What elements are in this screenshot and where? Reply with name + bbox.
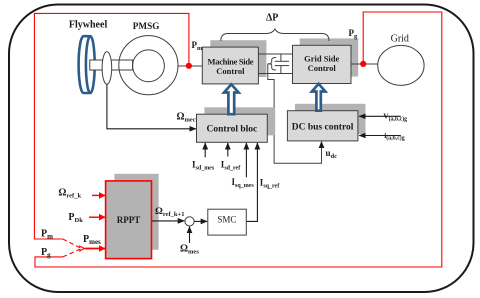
- arrow Isd_mes into Control bloc: [204, 143, 206, 157]
- wire PMSG to machine side control: [178, 65, 202, 67]
- svg-text:Pm: Pm: [41, 229, 53, 241]
- svg-text:Grid Side: Grid Side: [304, 54, 339, 64]
- svg-text:i(a,b,c)g: i(a,b,c)g: [384, 131, 405, 142]
- svg-text:Grid: Grid: [391, 34, 409, 45]
- PMSG rotor circle: [133, 50, 165, 82]
- wire SMC output to Isq_ref into Control bloc: [246, 143, 257, 221]
- arrow omega mes into summing: [189, 227, 191, 243]
- junction arrowhead Pmes: [79, 246, 85, 252]
- arrow P_Dk into RPPT: [89, 216, 105, 218]
- svg-text:RPPT: RPPT: [117, 215, 141, 225]
- svg-text:udc: udc: [326, 148, 338, 160]
- block DC bus control: [287, 111, 358, 141]
- wire udc to DC bus control: [268, 64, 322, 164]
- wire DC link bottom rail: [258, 73, 292, 75]
- wire DC link top rail: [258, 53, 292, 55]
- capacitor DC bus: [275, 54, 289, 74]
- block Control bloc: [197, 114, 268, 142]
- svg-text:Isd_mes: Isd_mes: [192, 160, 215, 172]
- svg-text:Flywheel: Flywheel: [69, 19, 108, 30]
- svg-text:Isq_mes: Isq_mes: [232, 177, 255, 189]
- arrow V(a,b,c)g into DC bus control: [359, 115, 401, 117]
- arrow red Pmes into RPPT: [85, 248, 105, 250]
- wire red Pm loop (dot to RPPT via left side): [34, 13, 189, 239]
- svg-text:Ωmes: Ωmes: [180, 243, 199, 255]
- block RPPT: [106, 181, 152, 259]
- big arrow DC bus control to Grid Side Control: [312, 84, 325, 111]
- svg-text:Control bloc: Control bloc: [207, 124, 258, 134]
- arrow i(a,b,c)g into DC bus control: [359, 135, 401, 137]
- shadow Control bloc: [204, 107, 275, 135]
- shadow Machine Side Control: [210, 40, 266, 77]
- svg-text:Pg: Pg: [41, 247, 51, 259]
- wire red Pg dashed segment: [63, 249, 81, 257]
- svg-text:ΔP: ΔP: [266, 12, 278, 23]
- PMSG stator circle: [119, 36, 178, 95]
- arrow Isd_ref into Control bloc: [227, 143, 229, 157]
- speed sensor ellipse: [102, 52, 112, 85]
- svg-text:SMC: SMC: [217, 215, 236, 225]
- wire red Pg loop (dot to bottom via right side): [35, 12, 442, 267]
- svg-text:DC bus control: DC bus control: [292, 123, 354, 133]
- block Machine Side Control: [202, 47, 258, 84]
- svg-text:Pm: Pm: [192, 40, 204, 52]
- block Grid Side Control: [293, 45, 352, 83]
- svg-text:V(a,b,c)g: V(a,b,c)g: [383, 112, 407, 123]
- svg-text:Pmes: Pmes: [83, 234, 101, 246]
- svg-text:Ωmec: Ωmec: [177, 112, 196, 124]
- wire grid side to grid: [351, 63, 378, 65]
- shadow RPPT: [114, 174, 158, 250]
- svg-text:PDk: PDk: [68, 212, 83, 224]
- big arrow Control bloc to Machine Side Control: [224, 84, 239, 114]
- summing junction: [185, 217, 194, 226]
- shadow Grid Side Control: [300, 38, 359, 76]
- grid circle: [378, 45, 424, 85]
- shadow DC bus control: [295, 104, 366, 134]
- block SMC: [208, 209, 247, 235]
- svg-text:Pg: Pg: [349, 28, 359, 40]
- arrow omega ref_k into RPPT: [92, 194, 105, 196]
- svg-text:Ωref_k+1: Ωref_k+1: [155, 206, 185, 218]
- wire red Pm dashed segment: [63, 239, 81, 248]
- brace delta P over converters: [221, 29, 329, 41]
- node Pm red dot: [186, 63, 192, 69]
- flywheel: [79, 36, 95, 93]
- arrow summing to SMC: [194, 220, 207, 222]
- svg-text:PMSG: PMSG: [133, 21, 160, 31]
- arrow Isq_mes into Control bloc: [245, 143, 247, 177]
- arrow omega ref_k+1 RPPT to summing: [152, 220, 185, 222]
- svg-text:Control: Control: [308, 63, 337, 73]
- svg-text:Control: Control: [216, 66, 245, 76]
- svg-text:Isq_ref: Isq_ref: [260, 178, 280, 190]
- wire omega mec from sensor to Control bloc: [107, 84, 196, 129]
- svg-text:Isd_ref: Isd_ref: [221, 160, 241, 172]
- shaft: [90, 60, 133, 70]
- node Pg red dot: [360, 61, 366, 67]
- svg-text:Ωref_k: Ωref_k: [58, 187, 81, 199]
- brace udc measurement: [268, 58, 276, 71]
